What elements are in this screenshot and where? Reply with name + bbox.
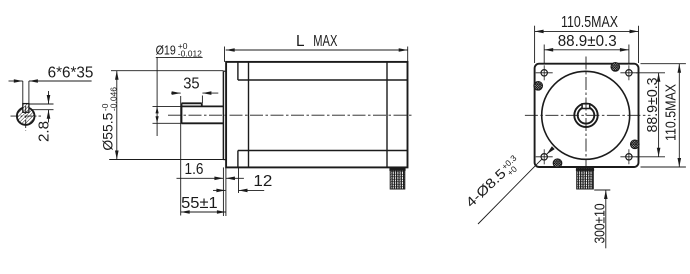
svg-text:300±10: 300±10 [592, 203, 608, 243]
svg-text:12: 12 [253, 173, 272, 190]
svg-text:55±1: 55±1 [181, 195, 218, 212]
svg-text:88.9±0.3: 88.9±0.3 [558, 33, 617, 50]
svg-text:110.5MAX: 110.5MAX [663, 84, 679, 141]
svg-text:MAX: MAX [313, 33, 337, 50]
svg-text:L: L [296, 33, 305, 50]
svg-text:35: 35 [183, 76, 199, 93]
svg-text:Ø19: Ø19 [156, 42, 176, 57]
svg-text:1.6: 1.6 [185, 161, 204, 178]
svg-text:2.8: 2.8 [35, 121, 52, 142]
svg-text:88.9±0.3: 88.9±0.3 [645, 78, 661, 133]
svg-text:110.5MAX: 110.5MAX [561, 14, 618, 31]
svg-text:6*6*35: 6*6*35 [48, 65, 94, 82]
svg-text:-0.046: -0.046 [108, 87, 118, 111]
svg-text:Ø55.5: Ø55.5 [101, 112, 116, 150]
